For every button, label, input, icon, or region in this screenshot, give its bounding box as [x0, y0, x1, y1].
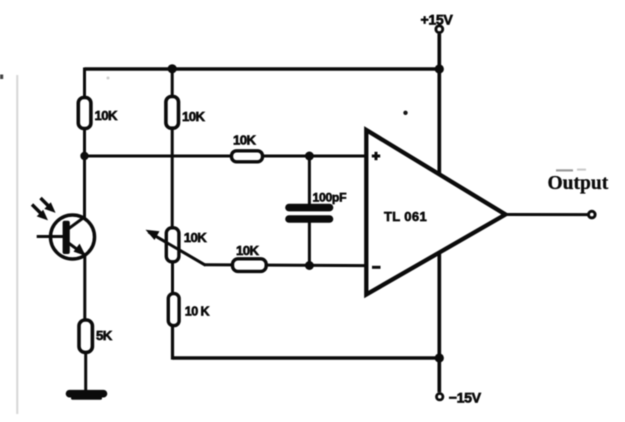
junction node: top rail / supply [435, 64, 444, 73]
wire: potentiometer wiper diagonal [149, 232, 206, 265]
svg-text:10K: 10K [236, 243, 259, 258]
wire: collector lead down to phototransistor [83, 156, 86, 219]
wire: +15V supply vertical rail [437, 34, 441, 393]
resistor R4 10K (inverting input series) [233, 259, 267, 272]
scan artifact: faint page-edge vertical line [16, 75, 18, 414]
phototransistor Q1 emitter lead down to R7 [83, 253, 86, 321]
junction node: C1 top / + input line [305, 152, 314, 161]
svg-text:100pF: 100pF [313, 191, 347, 205]
wiper arrowhead [146, 230, 160, 240]
ground symbol [70, 390, 104, 398]
light arrow 1 into Q1 [41, 198, 50, 207]
resistor R1 10K [78, 98, 91, 129]
scan artifact: grey speck [107, 77, 110, 80]
junction node A: R1 bottom / + input line [80, 152, 88, 160]
capacitor C1 bottom lead [308, 222, 311, 266]
svg-text:10K: 10K [95, 108, 118, 123]
phototransistor Q1 collector internal diagonal [67, 217, 85, 230]
output terminal circle [589, 211, 596, 218]
op-amp - input marking [372, 266, 381, 269]
wire: R2 bottom down to potentiometer R5 (crosses + input line) [171, 128, 174, 228]
wire: left branch from rail down to R1 [83, 68, 86, 101]
scan artifact: dark dash at left edge [0, 75, 3, 80]
phototransistor Q1 base bar [63, 221, 70, 254]
light arrow 2 into Q1 [32, 205, 41, 214]
svg-text:+15V: +15V [421, 12, 454, 28]
wire: R7 to ground [84, 351, 87, 392]
svg-text:10K: 10K [182, 109, 205, 124]
-15V terminal circle [437, 394, 443, 400]
wire: potentiometer bottom to R6 [171, 261, 174, 295]
potentiometer wiper diagonal over body [157, 237, 206, 265]
wire: middle branch from rail to R2 [171, 68, 174, 101]
capacitor C1 plates (100pF) [289, 204, 330, 212]
wire: non-inverting input line (node A to op-amp +) [85, 155, 367, 158]
wire: bottom supply rail [173, 356, 440, 360]
resistor R6 10K [168, 294, 179, 326]
svg-text:Output: Output [548, 173, 609, 194]
svg-text:10K: 10K [233, 133, 256, 148]
phototransistor Q1 body circle [51, 215, 95, 259]
wire: top supply rail [85, 67, 440, 71]
phototransistor Q1 emitter internal diagonal with arrow [69, 243, 85, 255]
op-amp U1 TL061 triangle [366, 130, 505, 295]
junction node: top rail / R2 [168, 64, 177, 73]
+15V terminal circle [436, 26, 443, 33]
junction node: C1 bottom / - input line [305, 261, 314, 270]
resistor R2 10K [166, 97, 179, 129]
capacitor C1 top lead [308, 156, 311, 204]
svg-text:10 K: 10 K [185, 305, 210, 319]
op-amp + input marking [372, 152, 380, 160]
resistor R3 10K (non-inverting input series) [232, 151, 263, 162]
svg-text:5K: 5K [96, 328, 113, 343]
wire: output from op-amp apex [504, 213, 588, 216]
wire: R1 bottom to node A [83, 128, 86, 158]
svg-text:10K: 10K [184, 230, 207, 245]
scan artifact: grey dashes above Output [556, 169, 573, 171]
resistor R7 5K [79, 320, 92, 352]
scan artifact: black dot above op-amp [403, 111, 407, 115]
wire: inverting input line (wiper corner to op-amp -) [205, 263, 367, 267]
phototransistor Q1 base lead [37, 235, 64, 238]
junction node: bottom rail / supply [435, 353, 444, 362]
potentiometer R5 10K body [166, 228, 179, 262]
svg-text:TL 061: TL 061 [384, 209, 427, 224]
wire: R6 bottom down and to bottom rail [171, 325, 174, 360]
svg-text:−15V: −15V [449, 390, 482, 406]
